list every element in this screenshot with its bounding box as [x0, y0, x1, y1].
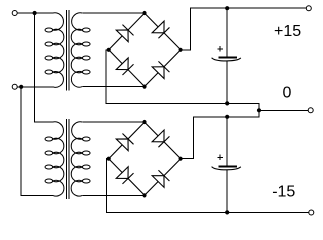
diode D1 (bridge1 left-top) [116, 25, 133, 42]
node bridge2 top [142, 120, 146, 124]
diode D4 (bridge1 bottom-right) [152, 61, 169, 78]
wire: 0V net bridge1 - node to bridge2 + node [106, 50, 259, 159]
terminal AC input a [12, 11, 17, 16]
wire: bridge2 T-R [145, 122, 181, 159]
node bridge2 left [107, 157, 111, 161]
wire: T1 secondary top to bridge1 top node [82, 12, 144, 14]
diode D7 (bridge2 left-bottom) [116, 167, 133, 184]
wire: bridge2 - output to -15 rail [106, 159, 308, 213]
wire: AC terminal b to T1 primary bottom [17, 86, 53, 88]
capacitor C1 [212, 46, 241, 61]
wire: 0V tap to terminal [259, 109, 308, 111]
junction J2 [19, 85, 23, 89]
diode D3 (bridge1 left-bottom) [116, 58, 133, 75]
node bridge1 right [179, 48, 183, 52]
terminal +15 [306, 6, 311, 11]
wire: bridge1 L-T [109, 13, 145, 50]
node bridge1 bottom [142, 85, 146, 89]
junction -15 rail / C2 [225, 210, 229, 214]
wire: T2 secondary bottom to bridge2 bottom node [82, 194, 144, 196]
diode D6 (bridge2 top-right) [152, 130, 169, 147]
wire: junction J1 down to T2 primary top [35, 13, 53, 122]
svg-text:-15: -15 [272, 184, 295, 201]
junction 0 rail / C1 [225, 101, 229, 105]
wire: bridge2 B-R [145, 159, 181, 196]
transformer T2 secondary winding [71, 122, 82, 196]
transformer T1 core [67, 10, 70, 90]
junction +15 rail / C1 [225, 6, 229, 10]
node bridge2 right [179, 157, 183, 161]
wire: bridge2 L-T [109, 122, 145, 159]
wire: bridge1 B-R [145, 50, 181, 87]
node bridge2 bottom [142, 193, 146, 197]
wire: T1 secondary bottom to bridge1 bottom node [82, 86, 144, 88]
svg-text:+15: +15 [274, 23, 301, 40]
diode D2 (bridge1 top-right) [152, 21, 169, 38]
diode D8 (bridge2 bottom-right) [152, 170, 169, 187]
terminal -15 [309, 210, 314, 215]
junction 0 terminal tap [257, 108, 261, 112]
capacitor C2 [212, 155, 241, 170]
wire: T2 secondary top to bridge2 top node [82, 121, 144, 123]
svg-text:0: 0 [283, 85, 292, 102]
wire: 0 rail down to C2 [226, 117, 228, 166]
node bridge1 left [107, 48, 111, 52]
wire: C1 to 0 rail [226, 61, 228, 103]
wire: C2 to -15 rail [226, 170, 228, 213]
wire: bridge1 L-B [109, 50, 145, 87]
wire: bridge2 L-B [109, 159, 145, 196]
wire: bridge1 + output up to +15 rail [181, 8, 307, 50]
terminal AC input b [12, 84, 17, 89]
transformer T2 core [67, 119, 70, 199]
transformer T1 primary winding [53, 13, 64, 88]
diode D5 (bridge2 left-top) [116, 134, 133, 151]
node bridge1 top [142, 11, 146, 15]
wire: junction J2 down to T2 primary bottom [21, 87, 53, 196]
junction 0 rail / C2 [225, 115, 229, 119]
transformer T2 primary winding [53, 122, 64, 196]
wire: bridge1 T-R [145, 13, 181, 50]
terminal 0 [308, 108, 313, 113]
transformer T1 secondary winding [71, 13, 82, 87]
wire: AC terminal a to T1 primary top [17, 12, 53, 14]
junction J1 [33, 11, 37, 15]
wire: +15 rail down to C1 [226, 8, 228, 57]
